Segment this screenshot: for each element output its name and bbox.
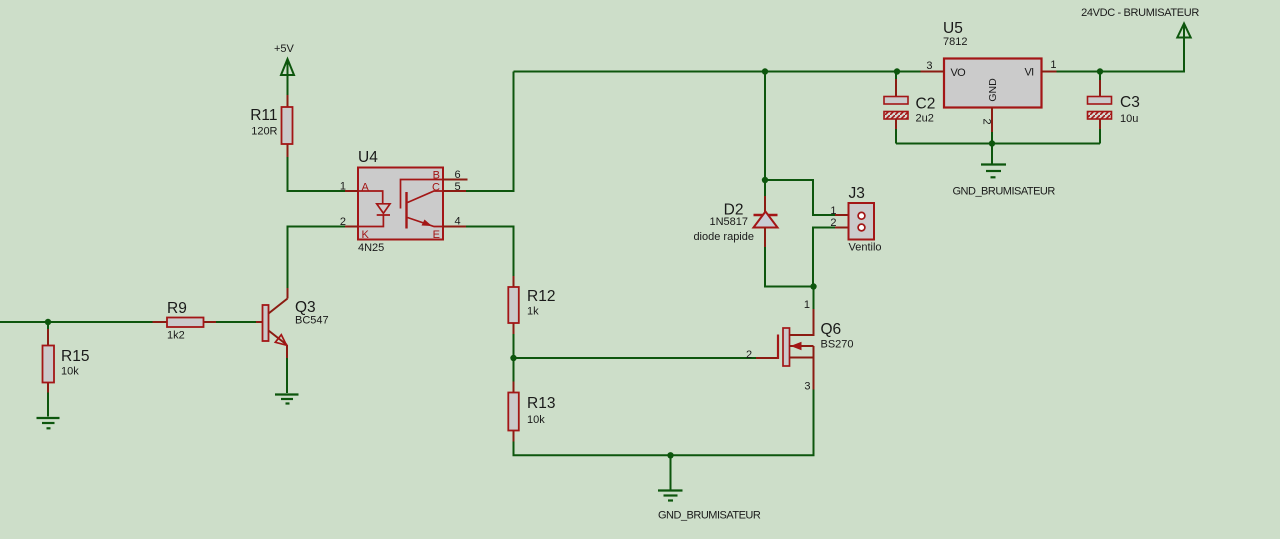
wire R12 bottom to gate node [513, 334, 515, 358]
resistor R11 [250, 95, 292, 157]
node D2/J3 top junction [762, 177, 768, 183]
svg-text:VI: VI [1025, 67, 1035, 79]
ground under R15 [37, 418, 60, 428]
svg-text:1k2: 1k2 [167, 330, 185, 342]
svg-text:C3: C3 [1120, 94, 1140, 111]
wire bottom rail [514, 390, 814, 456]
svg-text:24VDC - BRUMISATEUR: 24VDC - BRUMISATEUR [1081, 7, 1199, 19]
U4 internal LED [358, 191, 383, 204]
svg-text:7812: 7812 [943, 36, 967, 48]
power 24VDC arrow [1081, 7, 1199, 38]
optocoupler U4 [340, 149, 468, 254]
wire Q6 drain up to D2/J3 node [813, 287, 815, 310]
svg-text:U5: U5 [943, 20, 963, 37]
wire left input to R9 [0, 321, 153, 323]
svg-text:2: 2 [340, 216, 346, 228]
svg-text:+5V: +5V [274, 43, 295, 55]
svg-text:2: 2 [981, 119, 993, 125]
wire Q3 collector up to U4 pin2 [288, 227, 346, 289]
ground under Q3 [275, 395, 299, 404]
ground bottom center [658, 491, 683, 501]
svg-text:Ventilo: Ventilo [849, 242, 882, 254]
wire U4 pin5 up to top rail [466, 72, 514, 192]
wire gate node to Q6 gate [514, 357, 757, 359]
node rail ground junction [989, 140, 995, 146]
node top rail / D2 branch [762, 68, 768, 74]
wire D2 top branch [764, 72, 766, 197]
wire R9 to Q3 base [216, 321, 256, 323]
net label GND_BRUMISATEUR right [953, 186, 1056, 198]
ground under U5 [981, 165, 1006, 178]
wire D2 anode to drain node [765, 247, 814, 287]
diode D2 [693, 196, 777, 247]
svg-text:1: 1 [804, 299, 810, 311]
wire C3 top pin [1099, 72, 1101, 81]
wire caps bottom rail [896, 143, 1100, 145]
svg-text:GND: GND [987, 78, 999, 102]
U4 pin stubs [345, 180, 468, 227]
wire top rail [514, 71, 921, 73]
svg-text:K: K [362, 229, 370, 241]
svg-text:4: 4 [455, 216, 461, 228]
svg-text:VO: VO [951, 67, 967, 79]
node junction left [45, 319, 51, 325]
svg-text:U4: U4 [358, 149, 378, 166]
svg-text:Q3: Q3 [295, 299, 316, 316]
wire U5 pin1 to 24V arrow [1057, 25, 1185, 72]
power +5V [274, 43, 295, 95]
svg-text:1N5817: 1N5817 [709, 216, 748, 228]
svg-text:2u2: 2u2 [916, 113, 934, 125]
svg-text:1: 1 [830, 205, 836, 217]
node top rail / C2 branch [894, 68, 900, 74]
svg-text:2: 2 [746, 349, 752, 361]
node gate junction [510, 355, 516, 361]
svg-text:Q6: Q6 [821, 321, 842, 338]
wire J3 pin2 branch [813, 228, 835, 287]
svg-text:GND_BRUMISATEUR: GND_BRUMISATEUR [658, 510, 761, 522]
svg-text:A: A [362, 182, 370, 194]
wire gate node down to R13 [513, 358, 515, 382]
resistor R15 [43, 329, 90, 393]
svg-text:E: E [433, 229, 440, 241]
svg-text:B: B [433, 170, 440, 182]
svg-text:3: 3 [804, 381, 810, 393]
svg-text:R11: R11 [250, 107, 277, 124]
resistor R13 [508, 382, 555, 442]
svg-text:BS270: BS270 [821, 339, 854, 351]
wire C3 bottom pin [1099, 129, 1101, 144]
capacitor C3 [1088, 80, 1140, 129]
net label GND_BRUMISATEUR bottom [658, 510, 761, 522]
wire R15 top [47, 322, 49, 329]
wire J3 pin1 branch [765, 180, 835, 215]
wire Q3 emitter to ground [286, 358, 288, 393]
svg-text:BC547: BC547 [295, 315, 329, 327]
svg-text:C: C [432, 182, 440, 194]
resistor R9 [153, 300, 217, 342]
svg-text:1: 1 [1050, 59, 1056, 71]
svg-text:10u: 10u [1120, 113, 1138, 125]
wire R15 bottom to ground [47, 393, 49, 417]
svg-text:1k: 1k [527, 306, 539, 318]
svg-text:120R: 120R [251, 126, 277, 138]
svg-text:10k: 10k [61, 366, 79, 378]
svg-text:10k: 10k [527, 414, 545, 426]
svg-text:5: 5 [455, 181, 461, 193]
svg-text:R15: R15 [61, 348, 89, 365]
wire ground stub U5 [991, 144, 993, 164]
transistor Q3 [256, 288, 329, 358]
capacitor C2 [884, 79, 935, 129]
svg-text:R12: R12 [527, 288, 555, 305]
wire ground stub bottom [670, 455, 672, 489]
svg-text:GND_BRUMISATEUR: GND_BRUMISATEUR [953, 186, 1056, 198]
resistor R12 [508, 276, 555, 334]
wire C2 bottom pin [895, 129, 897, 144]
regulator U5 [921, 20, 1057, 132]
svg-text:2: 2 [830, 217, 836, 229]
wire R11 to U4 pin1 [288, 157, 346, 191]
connector J3 [830, 185, 881, 254]
svg-text:R13: R13 [527, 395, 555, 412]
svg-text:6: 6 [455, 169, 461, 181]
wire U5 pin2 down to rail [991, 132, 993, 144]
svg-text:diode rapide: diode rapide [693, 231, 754, 243]
U4 internal phototransistor [401, 180, 444, 209]
svg-text:4N25: 4N25 [358, 242, 384, 254]
node C3 junction [1097, 68, 1103, 74]
svg-text:R9: R9 [167, 300, 187, 317]
wire C2 top pin [895, 72, 897, 80]
node drain junction [810, 283, 816, 289]
svg-text:J3: J3 [849, 185, 865, 202]
wire U4 pin4 down to R12 [466, 227, 514, 277]
transistor Q6 [746, 299, 854, 393]
svg-text:3: 3 [926, 60, 932, 72]
node bottom rail ground [667, 452, 673, 458]
svg-text:1: 1 [340, 181, 346, 193]
svg-text:C2: C2 [916, 96, 936, 113]
